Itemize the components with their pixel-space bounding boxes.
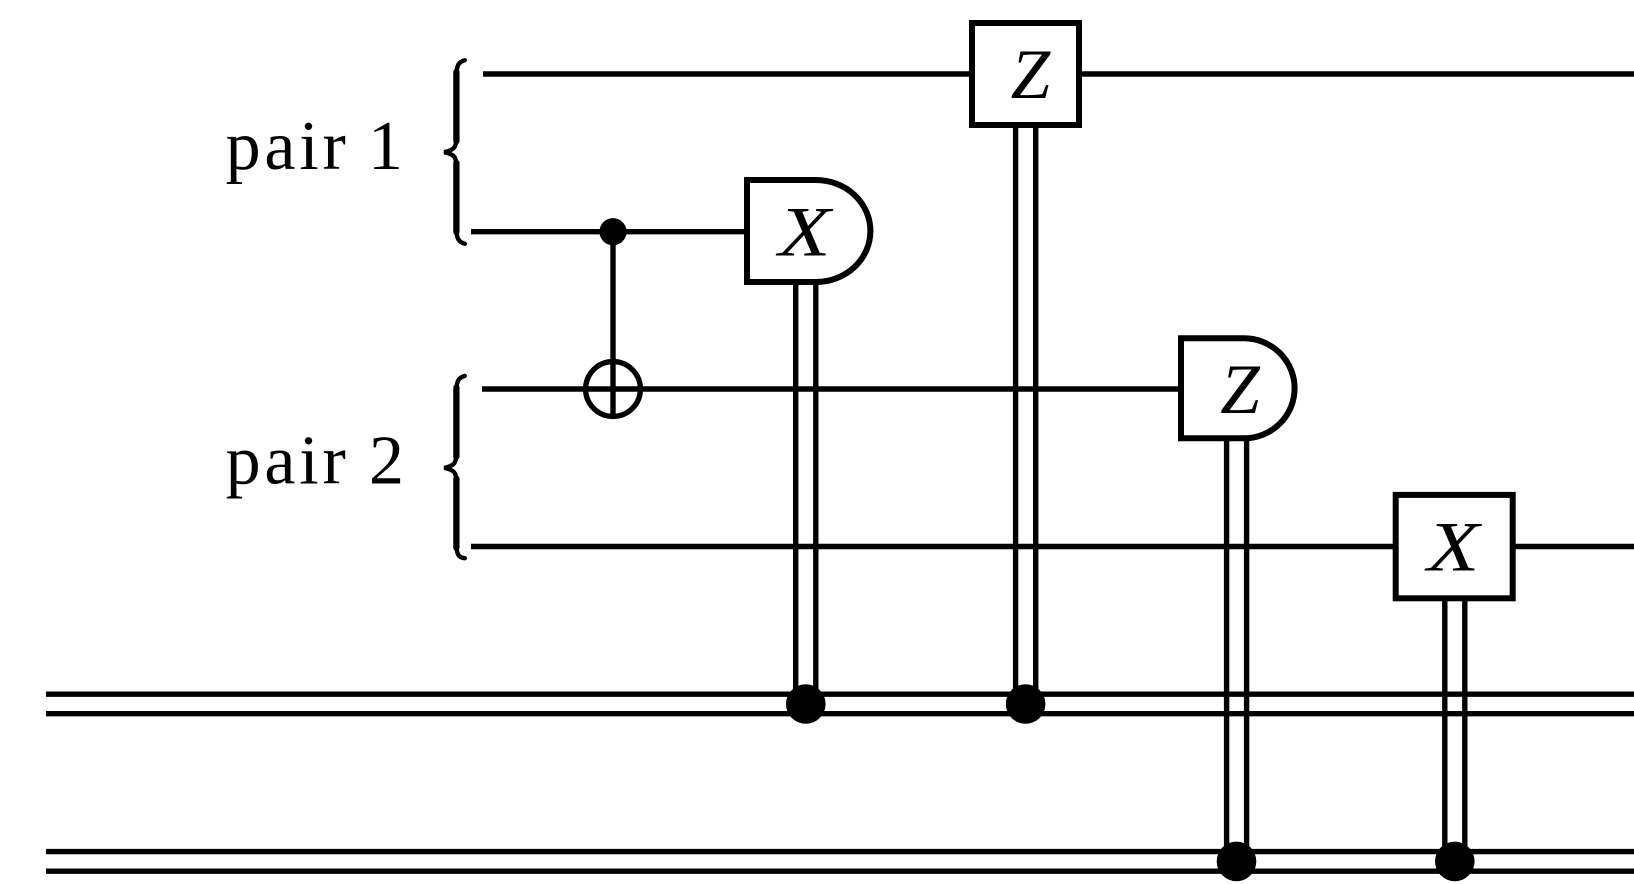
svg-text:X: X: [775, 192, 834, 271]
svg-text:2: 2: [369, 423, 404, 500]
svg-text:X: X: [1424, 507, 1483, 586]
svg-text:1: 1: [368, 108, 403, 185]
svg-text:pair: pair: [226, 108, 350, 185]
svg-text:pair: pair: [226, 423, 350, 500]
svg-text:Z: Z: [1011, 36, 1052, 114]
svg-text:Z: Z: [1220, 351, 1261, 429]
